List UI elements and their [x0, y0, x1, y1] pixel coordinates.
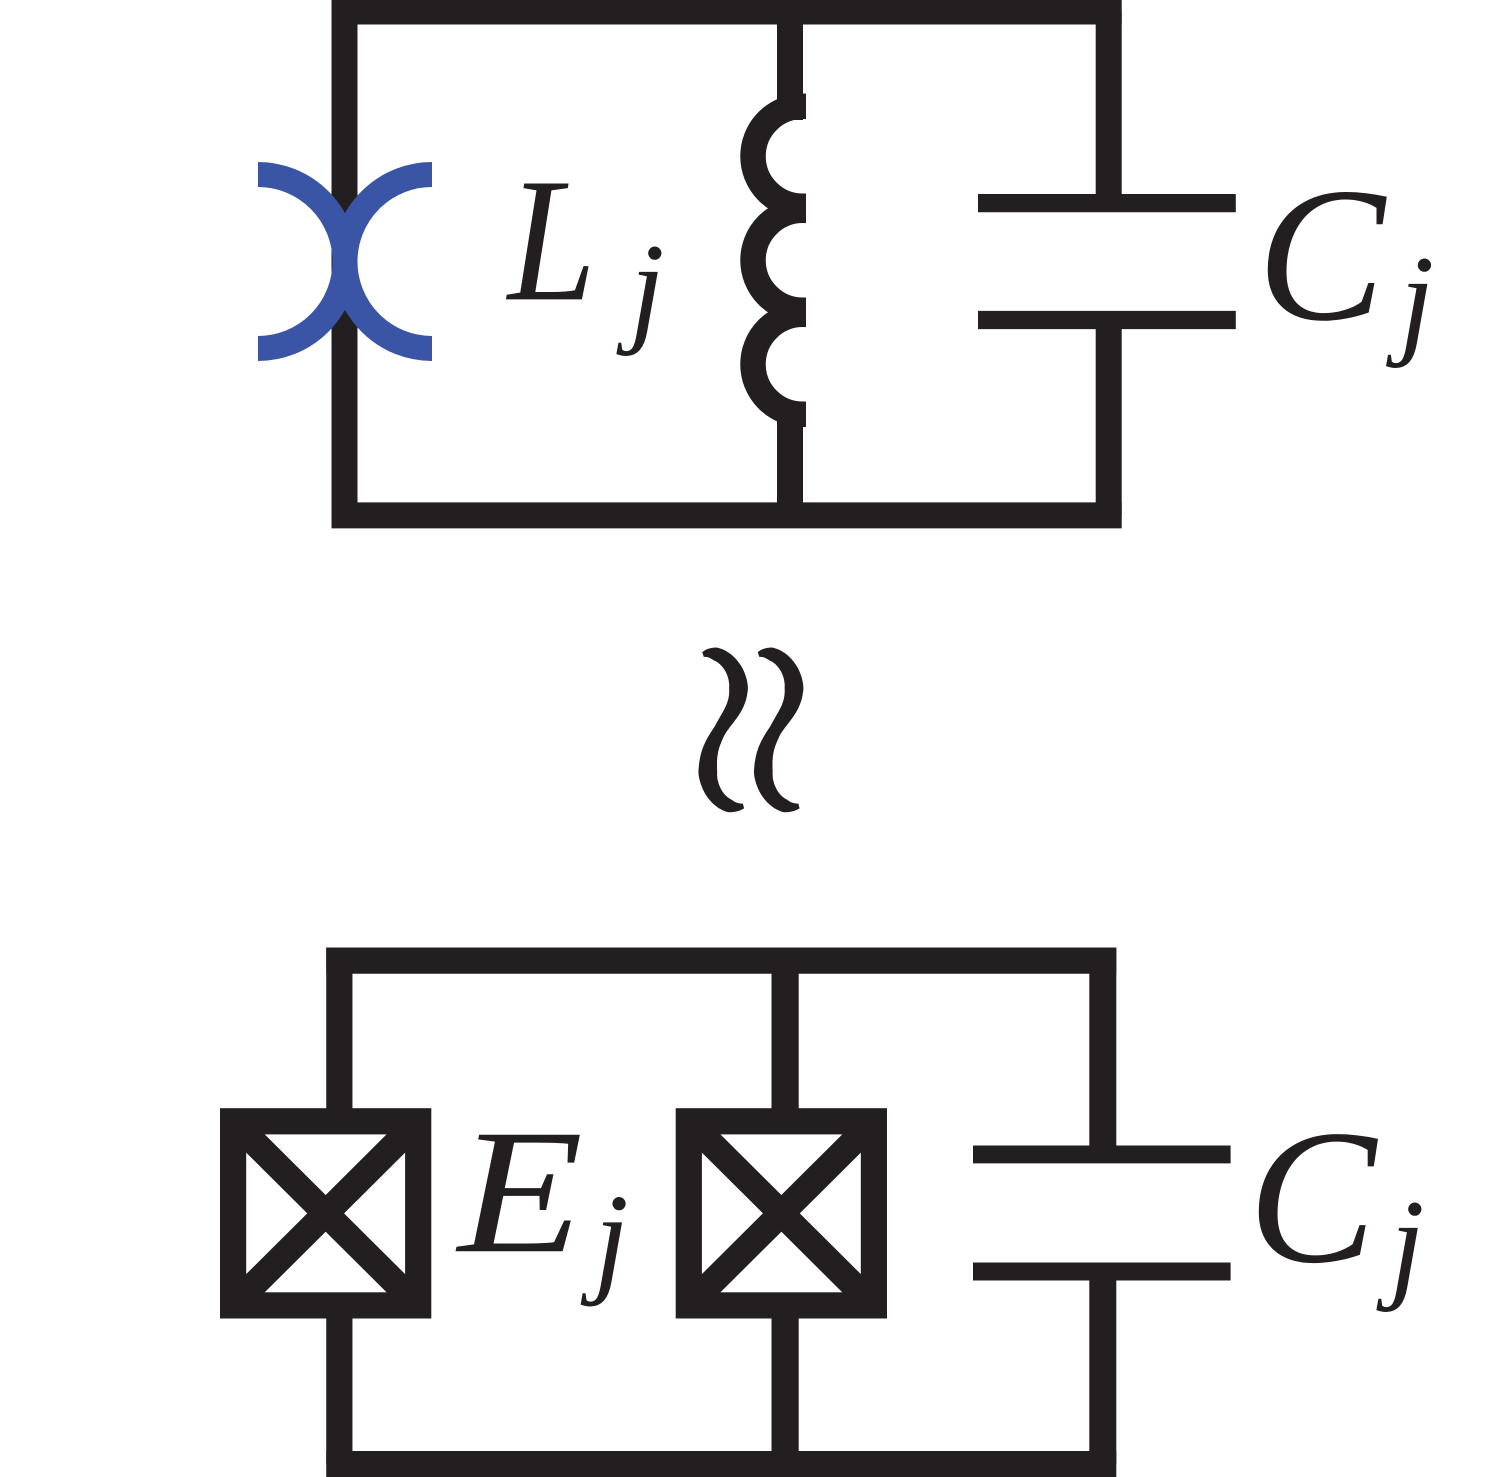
wire lower loop bottom side — [326, 1451, 1116, 1477]
josephson junction box Q1 (left, boxed X) — [220, 1108, 431, 1318]
wire top loop (top, left, bottom sides of upper rectangle) — [345, 12, 1122, 516]
inductor L_j (coil on middle branch) — [753, 12, 853, 516]
label C_j (lower) — [1248, 1090, 1424, 1313]
svg-text:j: j — [1376, 1176, 1425, 1314]
capacitor C_j (upper circuit, parallel plates) — [978, 203, 1236, 320]
wire lower loop top side — [326, 947, 1116, 973]
capacitor C_j (lower circuit, parallel plates) — [973, 1154, 1231, 1271]
wire middle branch upper stub — [771, 961, 798, 1120]
wire left branch lower stub — [326, 1305, 352, 1464]
svg-text:C: C — [1257, 149, 1387, 361]
wire capacitor bottom lead (lower circuit) — [1089, 1272, 1116, 1465]
wire middle branch lower stub — [771, 1305, 798, 1464]
label E_j — [455, 1093, 629, 1308]
svg-text:C: C — [1248, 1090, 1378, 1303]
approx-equal symbol (rotated, between circuits) — [698, 648, 803, 813]
svg-text:j: j — [616, 219, 665, 357]
wire capacitor top lead — [1096, 12, 1122, 204]
label C_j (upper) — [1257, 149, 1434, 369]
svg-text:j: j — [580, 1170, 629, 1308]
wire capacitor bottom lead — [1096, 320, 1122, 515]
svg-text:E: E — [455, 1093, 583, 1290]
josephson junction box Q2 (middle, boxed X) — [676, 1108, 887, 1318]
svg-text:L: L — [506, 143, 596, 339]
josephson junction X1 (blue cross of arcs on left branch) — [258, 175, 432, 349]
wire left branch upper stub — [326, 948, 352, 1121]
label L_j — [506, 143, 665, 358]
svg-text:j: j — [1385, 231, 1434, 369]
wire capacitor top lead (lower circuit) — [1089, 948, 1116, 1155]
